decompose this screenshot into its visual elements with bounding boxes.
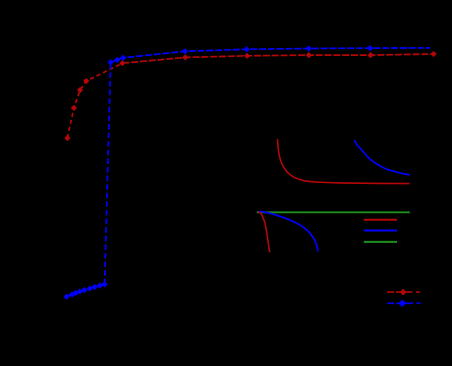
upper inset red curve — [277, 139, 409, 184]
lower inset green horizontal line — [257, 211, 410, 213]
main blue dashed curve plateau — [111, 48, 430, 62]
main red curve markers — [64, 51, 436, 141]
main blue curve markers — [64, 45, 374, 300]
lower inset red curve — [258, 212, 270, 253]
inset legend blue line — [364, 230, 397, 232]
upper inset blue curve — [355, 140, 410, 175]
inset legend red line — [364, 219, 397, 221]
main legend blue dashed sample — [387, 302, 420, 304]
lower inset blue curve — [260, 211, 319, 251]
inset legend green line — [364, 241, 397, 243]
main legend red dashed sample — [387, 291, 420, 293]
main legend red marker — [400, 289, 407, 296]
main blue curve jump segment — [105, 62, 111, 284]
main blue dashed curve — [67, 284, 105, 296]
main legend blue marker — [398, 300, 406, 308]
main red dashed curve plateau — [122, 54, 433, 63]
main red dashed curve — [67, 63, 122, 138]
